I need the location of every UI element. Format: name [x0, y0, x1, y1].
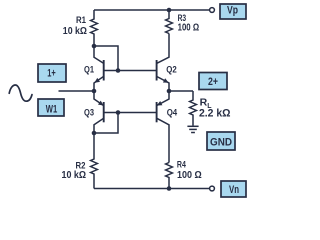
- wire Q3 collector loop: [94, 113, 118, 134]
- node R3 top: [167, 8, 172, 13]
- ground: [187, 126, 198, 132]
- node R1 bottom A: [92, 44, 97, 49]
- svg-text:10 kΩ: 10 kΩ: [62, 170, 87, 181]
- port 1+: [38, 64, 66, 82]
- terminal Vn circle: [210, 186, 215, 191]
- terminal Vp circle: [210, 8, 215, 13]
- port Vp: [220, 4, 246, 19]
- port GND: [207, 132, 235, 150]
- wire base line Q3-Q4: [104, 112, 157, 114]
- svg-text:2+: 2+: [208, 76, 218, 88]
- source W1 sine: [9, 85, 32, 101]
- resistor RL: [190, 91, 197, 126]
- wire output to RL: [169, 90, 193, 92]
- port Vn: [221, 181, 246, 197]
- node output: [167, 89, 172, 94]
- svg-text:100 Ω: 100 Ω: [178, 23, 200, 34]
- svg-text:GND: GND: [210, 136, 232, 148]
- transistor Q4: [157, 91, 169, 163]
- node R2 top C: [92, 131, 97, 136]
- svg-text:Vp: Vp: [227, 5, 238, 17]
- transistor Q1: [94, 46, 104, 91]
- node base B: [116, 68, 121, 73]
- transistor Q2: [157, 34, 169, 92]
- node input: [92, 89, 97, 94]
- svg-text:2.2 kΩ: 2.2 kΩ: [199, 108, 231, 120]
- resistor R2: [91, 133, 98, 189]
- resistor R1: [91, 10, 98, 46]
- resistor R4: [166, 163, 173, 189]
- wire bottom rail: [94, 188, 210, 190]
- wire top rail: [94, 9, 210, 11]
- svg-text:1+: 1+: [47, 68, 56, 80]
- svg-text:Q1: Q1: [84, 65, 95, 76]
- svg-text:100 Ω: 100 Ω: [177, 170, 202, 181]
- svg-text:R4: R4: [177, 160, 187, 171]
- svg-text:Q2: Q2: [166, 65, 177, 76]
- svg-text:Vn: Vn: [229, 184, 239, 196]
- svg-text:R1: R1: [76, 15, 87, 26]
- port W1: [38, 99, 64, 116]
- node R4 bottom: [167, 186, 172, 191]
- transistor Q3: [94, 91, 104, 133]
- svg-text:10 kΩ: 10 kΩ: [63, 26, 87, 37]
- svg-text:W1: W1: [46, 104, 58, 116]
- wire input: [59, 90, 95, 92]
- resistor R3: [166, 10, 173, 34]
- wire base line Q1-Q2: [104, 70, 157, 72]
- node base B2: [116, 110, 121, 115]
- svg-text:Q3: Q3: [84, 107, 94, 118]
- wire Q1 collector loop: [94, 46, 118, 71]
- port 2+: [199, 73, 227, 90]
- svg-text:Q4: Q4: [167, 107, 178, 118]
